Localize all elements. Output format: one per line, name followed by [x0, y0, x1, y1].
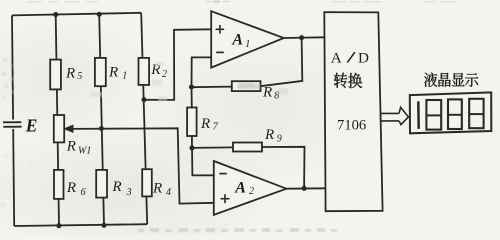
wire A2 output to A/D	[286, 187, 325, 189]
svg-text:A: A	[234, 180, 246, 197]
svg-text:R: R	[112, 179, 122, 195]
battery E plates	[3, 120, 22, 130]
wire A1 output to A/D	[284, 36, 325, 39]
A/D converter block	[324, 12, 382, 211]
junction dot wiper / R1-R3 node	[99, 126, 104, 131]
junction dot bottom rail / R3	[101, 223, 106, 228]
LCD digit 8 (second)	[448, 99, 462, 129]
wire node to R8 left	[192, 86, 233, 89]
svg-text:9: 9	[277, 134, 282, 145]
junction dot top rail / R5	[53, 12, 58, 17]
svg-text:W1: W1	[78, 145, 91, 156]
wire left rail	[12, 15, 14, 226]
svg-text:3: 3	[126, 187, 132, 198]
label R1	[108, 65, 127, 82]
svg-text:6: 6	[81, 187, 86, 198]
junction dot A2 output	[302, 186, 307, 191]
wire R9 right to A2 output (feedback)	[262, 147, 305, 189]
resistor R4	[142, 169, 152, 196]
label 转换	[334, 73, 362, 88]
junction dot A2 inverting node	[189, 145, 194, 150]
svg-text:R: R	[66, 180, 76, 196]
potentiometer RW1	[54, 115, 64, 142]
LCD digit 8 (first)	[426, 100, 441, 130]
wire A1 - input down to node	[192, 57, 212, 87]
hollow arrow A/D to LCD	[381, 107, 409, 124]
svg-text:4: 4	[166, 187, 171, 198]
junction dot top rail / R1	[97, 12, 102, 17]
wire top rail	[12, 13, 141, 16]
resistor R2	[139, 58, 150, 85]
wire bottom rail	[14, 224, 147, 226]
label R6	[66, 180, 86, 198]
resistor R1	[95, 58, 106, 86]
op-amp A1 minus input sign	[216, 51, 224, 53]
op-amp A2 minus input sign	[219, 173, 227, 175]
svg-text:R: R	[200, 116, 210, 132]
svg-text:R: R	[152, 180, 162, 196]
label RW1	[66, 139, 92, 157]
resistor R7	[187, 108, 197, 137]
op-amp A1 plus input sign	[216, 25, 225, 34]
svg-text:R: R	[108, 65, 118, 81]
wire R8 right to A1 output (feedback)	[261, 38, 303, 87]
op-amp A2 triangle	[214, 161, 287, 215]
potentiometer RW1 wiper arrow	[64, 125, 73, 132]
svg-text:5: 5	[77, 71, 82, 82]
label 液晶显示	[424, 73, 478, 87]
svg-text:R: R	[264, 127, 274, 143]
label A/D	[331, 49, 369, 66]
label A1	[231, 32, 250, 51]
op-amp A1 triangle	[211, 11, 284, 67]
svg-text:A: A	[331, 49, 342, 66]
svg-text:A: A	[231, 32, 243, 49]
svg-text:E: E	[25, 115, 38, 135]
svg-text:1: 1	[122, 70, 127, 81]
resistor R9	[233, 143, 262, 152]
wire column C (R1/R3 branch)	[99, 14, 104, 225]
wire R7 bottom to node	[191, 136, 193, 148]
LCD display box	[410, 92, 492, 133]
label A2	[234, 180, 254, 197]
svg-text:R: R	[262, 85, 272, 101]
resistor R6	[54, 170, 64, 199]
svg-text:2: 2	[162, 69, 167, 80]
label R7	[200, 116, 219, 132]
wire RW1 wiper to A2 + input	[71, 128, 214, 203]
label R4	[152, 180, 171, 198]
LCD digit 1	[417, 101, 420, 129]
svg-text:1: 1	[245, 39, 250, 50]
junction dot A1 output	[299, 35, 304, 40]
label 7106	[337, 118, 366, 134]
junction dot A1 inverting node	[189, 84, 194, 89]
svg-text:D: D	[358, 50, 369, 67]
svg-text:7106: 7106	[337, 118, 366, 134]
wire column D (R2/R4 branch)	[141, 13, 147, 224]
wire node to R9 left	[192, 146, 233, 149]
junction dot bottom rail / R6	[56, 223, 61, 228]
LCD digit 8 (third)	[469, 99, 483, 128]
label R9	[264, 127, 282, 145]
svg-text:R: R	[65, 65, 75, 81]
junction dot R2-R4 node	[141, 97, 146, 102]
resistor R8	[232, 81, 261, 91]
wire R2 node to A1 + input	[144, 29, 211, 100]
label R5	[65, 65, 82, 82]
label R8	[262, 85, 279, 102]
label R2	[150, 62, 167, 80]
label E	[25, 115, 38, 135]
svg-text:R: R	[66, 139, 76, 155]
label R3	[112, 179, 132, 198]
wire node down to R7	[191, 87, 193, 107]
resistor R3	[96, 170, 107, 198]
wire node to A2 - input	[192, 148, 214, 176]
op-amp A2 plus input sign	[221, 194, 230, 203]
resistor R5	[50, 60, 61, 90]
svg-text:2: 2	[249, 186, 254, 197]
wire column B (R5/RW1/R6 branch)	[56, 15, 59, 226]
